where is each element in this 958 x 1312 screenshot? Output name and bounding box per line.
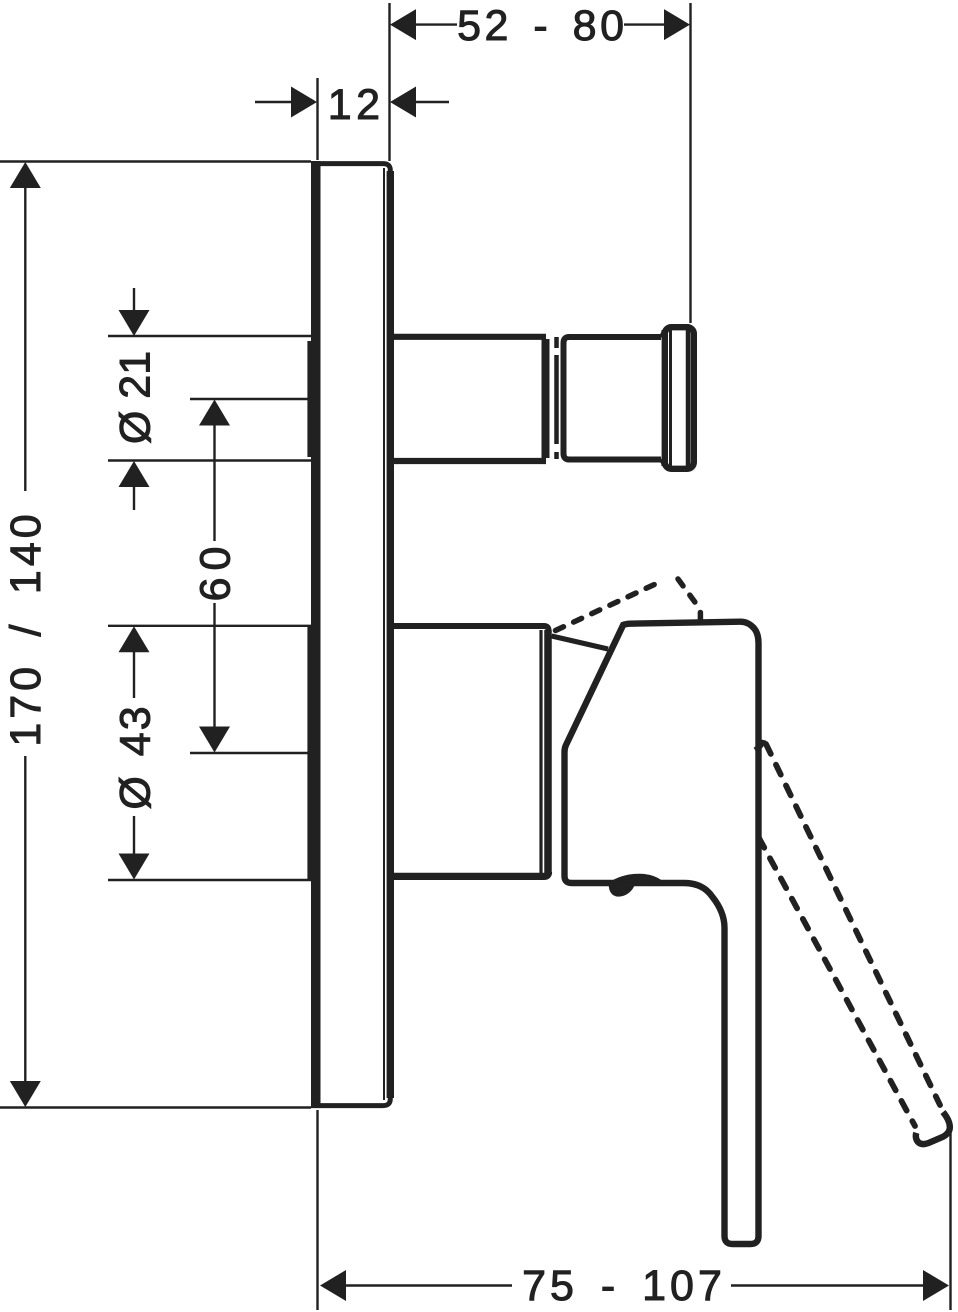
wall plate right edge — [383, 164, 390, 1106]
spout sleeve — [564, 337, 662, 460]
dimension O21 bottom arrow — [119, 461, 150, 487]
dashed lever edge B — [759, 838, 915, 1126]
dimension O21 bottom arrow tail — [133, 485, 135, 510]
wall plate face line — [383, 168, 385, 1100]
dimension O43 up arrow — [119, 626, 150, 652]
dashed handle wedge line 1 — [556, 580, 665, 631]
svg-text:60: 60 — [191, 540, 239, 602]
dimension 75-107 line right segment — [731, 1284, 926, 1286]
spout flange face line right — [686, 330, 691, 466]
dimension 60 down arrow — [199, 727, 230, 753]
dimension 60 up arrow — [199, 400, 230, 426]
spout flange outer — [665, 327, 694, 469]
dimension 12 line left tail — [255, 101, 293, 103]
dimension 170/140 line upper segment — [24, 185, 26, 491]
dimension 75-107 left extension line — [316, 1110, 318, 1310]
dimension 52-80 right extension line — [689, 3, 691, 323]
dimension 75-107 right arrow — [923, 1270, 949, 1301]
dimension 60 top tick — [190, 398, 309, 400]
dimension 60 line upper segment — [213, 423, 215, 541]
wall plate top edge — [311, 161, 383, 166]
wall plate left edge — [311, 161, 321, 1108]
dimension 12 left extension line — [316, 78, 318, 160]
wall plate left bulge at spout pipe — [307, 341, 312, 457]
dimension O21 top extension line — [108, 335, 311, 337]
svg-text:170 / 140: 170 / 140 — [2, 510, 50, 746]
dashed handle wedge line 2 — [678, 579, 700, 609]
spout flange face line left — [669, 330, 672, 466]
svg-text:Ø 21: Ø 21 — [112, 351, 160, 444]
wall plate bottom edge — [311, 1103, 383, 1108]
dimension 12 right arrow — [390, 87, 416, 118]
dimension O43 top extension line — [108, 625, 311, 627]
svg-text:75 - 107: 75 - 107 — [522, 1262, 726, 1310]
dimension O21 top arrow — [119, 310, 150, 336]
wall plate left bulge at cartridge — [307, 625, 312, 880]
dimension O21 bottom extension line — [108, 459, 311, 461]
spout pipe seam line — [554, 337, 559, 459]
svg-text:12: 12 — [328, 81, 385, 129]
handle body and lever outline — [565, 622, 759, 1244]
dimension 60 bottom tick — [190, 752, 311, 754]
dashed handle wedge tick — [698, 613, 704, 620]
dashed lever end cap — [916, 1112, 950, 1144]
cartridge cylinder — [394, 626, 549, 631]
dimension O43 line upper segment — [133, 650, 135, 698]
dimension O43 line lower segment — [133, 816, 135, 856]
svg-text:Ø 43: Ø 43 — [112, 704, 160, 809]
dimension 60 line lower segment — [213, 603, 215, 729]
dimension 170/140 line lower segment — [24, 756, 26, 1083]
spout sleeve top joint — [661, 330, 665, 337]
dimension 170/140 bottom extension line — [0, 1106, 311, 1108]
dimension 52-80 right arrow — [664, 9, 690, 40]
dimension 52-80 left arrow — [390, 9, 416, 40]
spout sleeve bottom joint — [661, 460, 665, 467]
dashed lever edge A — [766, 744, 940, 1105]
dimension 12 line right tail — [414, 101, 449, 103]
dimension 52-80 line left segment — [414, 23, 457, 25]
handle skirt seam line — [552, 636, 609, 649]
dimension 12 left arrow — [291, 87, 317, 118]
dashed lever pivot curve — [755, 740, 764, 750]
dimension 170/140 top extension line — [0, 160, 311, 162]
dimension 52-80 left extension line — [388, 3, 390, 161]
svg-text:52 - 80: 52 - 80 — [457, 2, 627, 50]
dimension 170/140 up arrow — [10, 162, 41, 188]
dimension 52-80 line right segment — [624, 23, 666, 25]
dimension 75-107 left arrow — [320, 1270, 346, 1301]
dimension O43 down arrow — [119, 854, 150, 880]
spout pipe — [394, 334, 547, 340]
dimension O21 top arrow tail — [133, 288, 135, 312]
dimension O43 bottom extension line — [108, 879, 311, 881]
handle seam blob — [608, 874, 663, 885]
dimension 170/140 down arrow — [10, 1081, 41, 1107]
dimension 75-107 right extension line — [949, 1131, 951, 1310]
cartridge cylinder face line — [539, 630, 542, 874]
dimension 75-107 line left segment — [344, 1284, 512, 1286]
